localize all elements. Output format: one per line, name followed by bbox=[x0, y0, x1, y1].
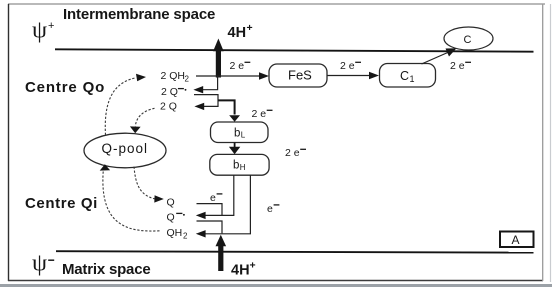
svg-text:2 QH: 2 QH bbox=[161, 70, 186, 82]
svg-text:2 e: 2 e bbox=[285, 147, 300, 159]
svg-text:Q: Q bbox=[167, 212, 175, 224]
label 2e- (top, left of FeS) bbox=[230, 60, 251, 72]
label 2 Q-dot (semiquinone, Qo) bbox=[161, 86, 186, 98]
svg-text:A: A bbox=[512, 233, 520, 247]
svg-text:Q-pool: Q-pool bbox=[102, 141, 149, 156]
label 2e- (FeS to C1) bbox=[340, 60, 361, 72]
label Q-dot (matrix side) bbox=[167, 212, 185, 224]
ellipse C (cytochrome c) bbox=[444, 27, 493, 50]
wire: Qo bracket (2Q-dot to 2Q conversion) bbox=[194, 95, 218, 107]
label e- (left, centre Qi) bbox=[210, 192, 222, 204]
wire: FeS to C1 bbox=[328, 75, 372, 77]
svg-text:Centre Qo: Centre Qo bbox=[25, 79, 105, 96]
arrowhead into bH bbox=[229, 147, 240, 154]
svg-text:C: C bbox=[400, 69, 409, 83]
thick 4H+ arrow (bottom) bbox=[216, 235, 227, 271]
wire: bH left leg to Q-dot bbox=[205, 175, 234, 215]
svg-text:2: 2 bbox=[185, 75, 190, 84]
wire: bH right leg to QH2 bbox=[205, 175, 250, 234]
svg-text:2 e: 2 e bbox=[340, 60, 355, 72]
curved arrow: QH2 up to Q-pool bbox=[103, 172, 160, 232]
curved arrow: 2Q down to Q-pool bbox=[135, 108, 154, 126]
arrowhead at 2Q-dot bbox=[193, 86, 203, 93]
wire: C1 to C bbox=[422, 52, 451, 65]
svg-text:2 e: 2 e bbox=[230, 60, 245, 72]
outer faint right edge line bbox=[550, 4, 552, 282]
svg-text:FeS: FeS bbox=[288, 67, 312, 82]
ellipse Q-pool bbox=[84, 133, 166, 168]
wire: bL to bH bbox=[234, 143, 236, 148]
svg-text:+: + bbox=[250, 260, 256, 272]
svg-text:L: L bbox=[241, 131, 246, 140]
label 2e- (near C) bbox=[450, 60, 471, 72]
svg-text:2: 2 bbox=[183, 232, 188, 241]
svg-text:+: + bbox=[247, 22, 253, 34]
svg-text:1: 1 bbox=[410, 74, 415, 84]
svg-text:C: C bbox=[464, 34, 472, 46]
thick 4H+ arrow (top) bbox=[213, 39, 224, 78]
wire: 2QH2 to FeS bbox=[196, 75, 261, 77]
svg-text:2 Q: 2 Q bbox=[160, 101, 177, 113]
svg-text:4H: 4H bbox=[228, 25, 247, 41]
box bL bbox=[211, 122, 269, 143]
label 4H+ (bottom) bbox=[231, 260, 256, 279]
svg-text:Intermembrane space: Intermembrane space bbox=[63, 6, 215, 23]
label 2e- (at bL branch) bbox=[252, 108, 273, 120]
label psi+ (top left) bbox=[32, 18, 54, 44]
svg-text:2 e: 2 e bbox=[252, 108, 267, 120]
arrowhead into bL bbox=[229, 115, 240, 122]
svg-text:e: e bbox=[267, 203, 273, 215]
label psi- (bottom left) bbox=[32, 251, 54, 277]
svg-text:e: e bbox=[210, 192, 216, 204]
arrowhead at 2Q bbox=[194, 103, 204, 110]
label 4H+ (top) bbox=[228, 22, 253, 41]
arrowhead at Q-dot bbox=[196, 212, 206, 219]
svg-text:2 Q: 2 Q bbox=[161, 86, 178, 98]
svg-text:H: H bbox=[240, 163, 246, 172]
box bH bbox=[210, 154, 269, 175]
membrane bottom line bbox=[56, 251, 534, 252]
arrowhead into FeS bbox=[259, 72, 269, 80]
arrowhead into C bbox=[446, 48, 457, 56]
svg-text:4H: 4H bbox=[231, 263, 250, 279]
arrowhead at QH2 bbox=[196, 230, 206, 237]
label 2 QH2 bbox=[161, 70, 190, 84]
svg-text:2 e: 2 e bbox=[450, 60, 465, 72]
svg-text:b: b bbox=[233, 160, 239, 172]
label QH2 (matrix side) bbox=[167, 227, 189, 241]
box FeS bbox=[269, 64, 327, 87]
svg-text:Q: Q bbox=[167, 197, 175, 209]
arrowhead into C1 bbox=[369, 72, 379, 80]
label e- (right, centre Qi) bbox=[267, 203, 279, 215]
svg-text:Centre Qi: Centre Qi bbox=[25, 195, 98, 212]
svg-text:+: + bbox=[48, 20, 54, 32]
bottom gray band bbox=[0, 284, 552, 287]
wire: Qi bracket Q-dot to QH2 bbox=[197, 221, 223, 233]
svg-text:QH: QH bbox=[167, 227, 183, 239]
box A (panel label) bbox=[500, 232, 534, 248]
svg-text:Matrix space: Matrix space bbox=[62, 261, 150, 278]
svg-text:ψ: ψ bbox=[32, 18, 47, 44]
svg-text:b: b bbox=[234, 127, 240, 139]
wire: Qi bracket Q to Q-dot bbox=[197, 204, 223, 215]
membrane top line bbox=[55, 49, 534, 51]
wire: electron branch to bL (thick) bbox=[218, 100, 235, 114]
curved arrow: Q-pool down to Q bbox=[134, 167, 155, 199]
label 2e- (right of bL/bH) bbox=[285, 147, 306, 159]
curved arrow: Q-pool up to 2QH2 bbox=[105, 78, 136, 135]
wire: down from QH2 line to 2Q-dot arrow bbox=[203, 77, 218, 90]
box C1 bbox=[380, 64, 436, 88]
svg-text:ψ: ψ bbox=[32, 251, 47, 277]
